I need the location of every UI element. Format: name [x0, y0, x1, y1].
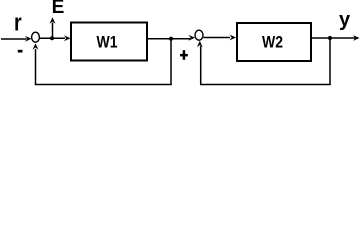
junction dot A [169, 37, 173, 41]
svg-text:y: y [339, 9, 351, 31]
arrowhead into summer S2 [189, 35, 196, 41]
arrowhead E up [50, 17, 56, 24]
arrowhead output y [353, 35, 360, 41]
wire drop from junction A [170, 39, 172, 85]
block W2 [237, 23, 311, 61]
arrowhead into summer S1 [25, 36, 32, 42]
wire drop from junction B [329, 38, 331, 85]
wire feedback 1 bottom [35, 84, 172, 86]
plus sign [180, 54, 188, 57]
wire input r [1, 38, 27, 40]
wire W1 to S2 [148, 38, 190, 40]
wire E branch up [52, 23, 54, 39]
wire S1 to W1 [40, 37, 66, 39]
junction dot E [50, 36, 54, 40]
wire S2 to W2 [204, 37, 231, 39]
wire feedback 2 bottom [200, 84, 331, 86]
summing junction S2 [195, 30, 203, 40]
junction dot B [328, 36, 332, 40]
arrowhead up into S2 [197, 41, 203, 48]
wire W2 output [312, 37, 355, 39]
wire feedback 1 rise [35, 49, 37, 85]
summing junction S1 [32, 32, 40, 42]
minus sign [18, 50, 23, 53]
svg-text:W1: W1 [97, 33, 118, 52]
arrowhead into W1 [64, 35, 71, 41]
block W1 [71, 23, 147, 61]
arrowhead up into S1 [33, 43, 39, 50]
svg-text:E: E [52, 0, 65, 18]
svg-text:W2: W2 [262, 33, 283, 52]
arrowhead into W2 [230, 35, 237, 41]
svg-text:r: r [14, 9, 22, 36]
wire feedback 2 rise [200, 46, 202, 85]
